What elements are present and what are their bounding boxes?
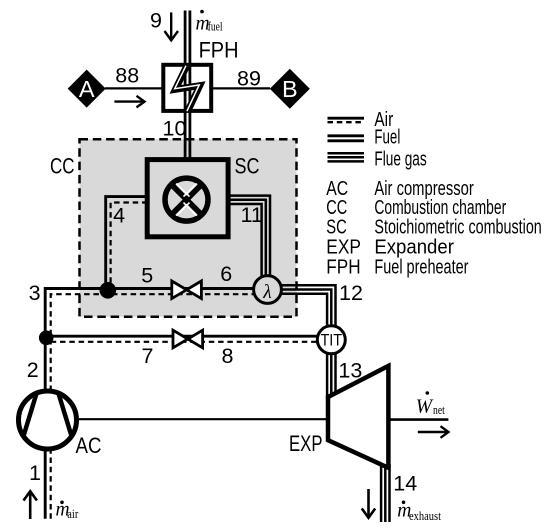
- svg-text:1: 1: [29, 461, 41, 485]
- svg-text:12: 12: [339, 281, 363, 305]
- svg-text:5: 5: [141, 263, 153, 287]
- svg-text:TIT: TIT: [320, 331, 342, 349]
- svg-text:7: 7: [142, 344, 154, 368]
- svg-text:Fuel preheater: Fuel preheater: [374, 256, 468, 278]
- svg-text:air: air: [67, 507, 79, 521]
- svg-text:B: B: [282, 76, 298, 102]
- svg-text:W: W: [416, 396, 434, 417]
- svg-text:EXP: EXP: [289, 431, 323, 456]
- svg-text:3: 3: [29, 281, 41, 305]
- svg-text:89: 89: [237, 67, 261, 91]
- svg-text:Stoichiometric combustion: Stoichiometric combustion: [374, 217, 541, 239]
- svg-text:A: A: [79, 76, 95, 102]
- svg-text:11: 11: [241, 203, 263, 227]
- svg-text:CC: CC: [326, 197, 347, 219]
- svg-text:CC: CC: [50, 153, 75, 178]
- svg-text:10: 10: [163, 117, 187, 141]
- svg-text:6: 6: [220, 262, 232, 286]
- svg-text:8: 8: [222, 344, 234, 368]
- svg-text:4: 4: [113, 203, 125, 227]
- svg-text:9: 9: [150, 9, 162, 33]
- svg-text:exhaust: exhaust: [409, 509, 441, 523]
- svg-text:SC: SC: [235, 153, 260, 178]
- svg-text:fuel: fuel: [208, 19, 223, 33]
- svg-text:2: 2: [27, 358, 39, 382]
- svg-text:14: 14: [393, 471, 417, 495]
- svg-text:13: 13: [338, 359, 362, 383]
- svg-text:AC: AC: [76, 433, 102, 458]
- svg-text:FPH: FPH: [199, 38, 239, 63]
- svg-text:88: 88: [115, 64, 139, 88]
- svg-text:SC: SC: [326, 217, 347, 239]
- svg-text:FPH: FPH: [326, 256, 360, 278]
- svg-text:Fuel: Fuel: [374, 127, 400, 149]
- svg-text:net: net: [433, 403, 445, 417]
- svg-text:Flue gas: Flue gas: [374, 149, 426, 171]
- svg-text:λ: λ: [262, 282, 271, 303]
- svg-text:Combustion chamber: Combustion chamber: [374, 197, 506, 219]
